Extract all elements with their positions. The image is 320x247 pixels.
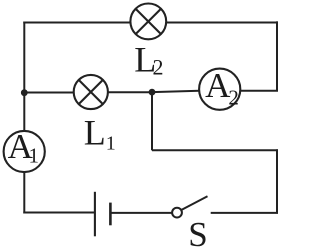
svg-text:1: 1 [29,143,40,167]
wire: middle rail junction to A2 [152,91,200,92]
wire: middle rail from left junction to L1 [24,92,74,94]
wire: switch to right vertical [211,212,278,214]
wire: middle rail from L1 to junction [108,91,152,93]
wire: battery to switch [110,212,172,214]
svg-text:1: 1 [106,133,116,155]
svg-text:A: A [205,66,231,105]
ammeter A1 [4,127,45,172]
wire: top rail left segment [23,22,130,24]
battery: short plate [109,203,112,226]
wire: right vertical upper (top rail down to A2 branch) [276,21,278,91]
label L1 [84,113,116,155]
lamp L1 [74,75,108,109]
wire: left vertical lower (A1 to bottom rail) [23,172,25,214]
battery: long plate [94,192,96,237]
node: junction left [21,89,28,96]
wire: bottom rail left (to battery) [23,212,95,214]
switch S lever [182,196,208,210]
wire: branch vertical from middle junction down [151,92,153,150]
svg-text:L: L [84,113,106,153]
svg-text:2: 2 [228,85,239,109]
label L2 [134,40,163,80]
switch S pivot circle [172,208,182,218]
wire: right vertical lower [276,149,278,213]
lamp L2 [130,4,166,40]
wire: A2 to right vertical [240,90,278,92]
node: junction middle [149,89,156,96]
wire: branch horizontal to right [152,149,278,151]
svg-text:2: 2 [153,55,164,80]
wire: left vertical upper [23,22,25,132]
svg-text:S: S [188,215,207,247]
wire: top rail right segment [166,22,278,24]
ammeter A2 [199,66,240,110]
